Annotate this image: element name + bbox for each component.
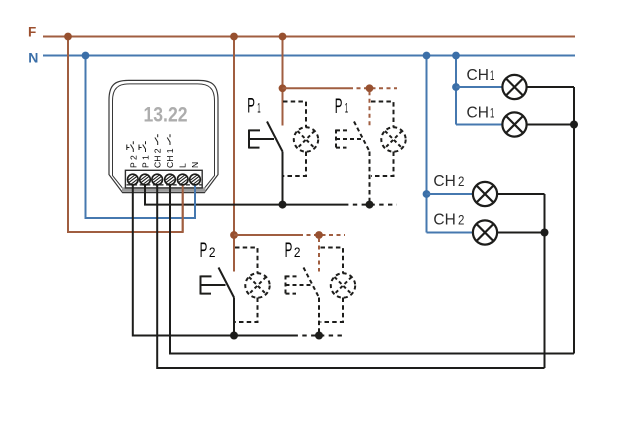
pushbutton P1 blade bbox=[267, 122, 283, 152]
svg-text:CH: CH bbox=[467, 67, 489, 84]
node F left bbox=[64, 33, 72, 41]
screw terminal 2 (P1) bbox=[140, 174, 151, 185]
wire CH1 return vertical bbox=[573, 87, 575, 354]
wire P1b top stub bbox=[369, 91, 371, 125]
wire F drop to P2 bbox=[233, 37, 235, 272]
wire N line bbox=[43, 55, 575, 57]
wire P2b blade to bus bbox=[318, 298, 320, 336]
svg-text:1: 1 bbox=[345, 101, 348, 116]
wire P1b blade to bus bbox=[369, 152, 371, 205]
node CH2 branch bbox=[423, 190, 431, 198]
lamp CH1a bbox=[502, 75, 526, 99]
wire to lamp CH2b bbox=[427, 232, 474, 234]
pushbutton P2b blade bbox=[304, 268, 320, 298]
wire lamp CH1a return bbox=[526, 86, 574, 88]
net F label bbox=[28, 25, 36, 40]
wire N drop to CH2 lamps bbox=[426, 56, 428, 233]
pushbutton P2b label bbox=[285, 239, 301, 262]
node CH2 return bbox=[541, 229, 549, 237]
lamp CH2b bbox=[473, 220, 497, 244]
node CH1 return bbox=[570, 121, 578, 129]
svg-text:P: P bbox=[285, 239, 293, 262]
lamp CH1a label bbox=[467, 67, 495, 84]
svg-text:2: 2 bbox=[294, 245, 301, 260]
wire N to N terminal (left loop) bbox=[86, 56, 196, 219]
terminal label P2 bbox=[127, 141, 139, 168]
P2 neon lamp bbox=[245, 273, 269, 297]
pushbutton P1b actuator bbox=[336, 130, 361, 149]
P1 neon lamp bbox=[294, 127, 318, 151]
wire terminal CH2 to lamp return bbox=[157, 182, 544, 368]
terminal label CH2 bbox=[153, 134, 163, 168]
svg-text:2: 2 bbox=[209, 245, 216, 260]
wire F drop to P1 bbox=[282, 37, 284, 126]
lamp CH2b label bbox=[433, 211, 464, 228]
pushbutton P1b label bbox=[335, 95, 348, 118]
wire to lamp CH1b bbox=[456, 124, 503, 126]
wire lamp CH2a return bbox=[497, 193, 545, 195]
wire P2 top branch bbox=[234, 234, 345, 236]
P2b lamp loop bbox=[321, 248, 344, 323]
svg-text:CH: CH bbox=[433, 173, 455, 190]
P1b lamp loop bbox=[371, 102, 394, 177]
svg-text:N: N bbox=[190, 162, 200, 168]
screw terminal 6 (N) bbox=[190, 174, 201, 185]
wire P2 blade to bus bbox=[233, 298, 235, 336]
svg-text:2: 2 bbox=[458, 212, 464, 227]
node P1 top bbox=[279, 84, 287, 92]
svg-text:P: P bbox=[247, 95, 255, 118]
svg-text:P 1: P 1 bbox=[141, 155, 151, 168]
wire N drop to CH1 lamps bbox=[455, 56, 457, 125]
node P1b top bbox=[366, 84, 374, 92]
node P1b bottom bbox=[366, 201, 374, 209]
svg-text:F: F bbox=[28, 25, 36, 40]
node N left bbox=[82, 52, 90, 60]
wire to lamp CH2a bbox=[427, 193, 474, 195]
screw terminal 5 (L) bbox=[177, 174, 188, 185]
wire lamp CH2b return bbox=[497, 232, 545, 234]
pushbutton P2 blade bbox=[219, 268, 235, 298]
wire terminal CH1 to lamp return bbox=[170, 182, 574, 354]
lamp CH2a bbox=[473, 182, 497, 206]
pushbutton P1 actuator bbox=[249, 130, 274, 149]
wire P2b top stub bbox=[318, 238, 320, 272]
node F at x234 bbox=[230, 33, 238, 41]
terminal label N bbox=[190, 162, 200, 168]
svg-text:CH: CH bbox=[467, 104, 489, 121]
svg-text:P: P bbox=[335, 95, 343, 118]
P2b neon lamp bbox=[331, 273, 355, 297]
wire CH2 return vertical bbox=[544, 194, 546, 368]
lamp CH2a label bbox=[433, 173, 464, 190]
pushbutton P2b actuator bbox=[286, 276, 311, 295]
pushbutton P2 actuator bbox=[201, 276, 226, 295]
terminal label L bbox=[178, 163, 188, 168]
screw terminal 4 (CH1) bbox=[165, 174, 176, 185]
svg-text:1: 1 bbox=[257, 100, 260, 115]
pushbutton P1 label bbox=[247, 95, 260, 118]
svg-text:CH: CH bbox=[433, 211, 455, 228]
lamp CH1b label bbox=[467, 104, 495, 121]
wire F to L terminal (left loop) bbox=[68, 37, 183, 233]
node P2 top bbox=[230, 231, 238, 239]
node N at x426 bbox=[423, 52, 431, 60]
P1b neon lamp bbox=[381, 127, 405, 151]
svg-text:P: P bbox=[200, 239, 208, 262]
lamp CH1b bbox=[502, 112, 526, 136]
svg-text:N: N bbox=[28, 50, 38, 66]
svg-text:L: L bbox=[178, 163, 188, 168]
wire terminal N stub bbox=[194, 182, 196, 218]
wire P1 blade to bus bbox=[282, 152, 284, 205]
node F at x283 bbox=[279, 33, 287, 41]
net N label bbox=[28, 50, 38, 66]
node N at x456 bbox=[452, 52, 460, 60]
terminal label P1 bbox=[139, 141, 151, 168]
terminal strip bbox=[122, 170, 205, 192]
svg-text:P 2: P 2 bbox=[128, 155, 138, 168]
svg-text:2: 2 bbox=[458, 174, 464, 189]
svg-text:CH 2: CH 2 bbox=[153, 148, 163, 168]
wire terminal P1 to mid bus bbox=[145, 182, 397, 205]
screw terminal 1 (P2) bbox=[128, 174, 139, 185]
svg-text:13.22: 13.22 bbox=[144, 103, 188, 127]
P1 lamp loop bbox=[283, 102, 306, 177]
wire terminal P2 to bottom bus bbox=[133, 182, 345, 336]
screw terminal 3 (CH2) bbox=[152, 174, 163, 185]
node CH1 branch bbox=[452, 83, 460, 91]
svg-text:1: 1 bbox=[490, 68, 494, 83]
wire terminal L stub bbox=[182, 182, 184, 232]
pushbutton P1b blade bbox=[354, 122, 370, 152]
svg-text:CH 1: CH 1 bbox=[165, 148, 175, 168]
module label 13.22 bbox=[144, 103, 188, 127]
pushbutton P2 label bbox=[200, 239, 216, 262]
node P1 bottom bbox=[279, 201, 287, 209]
node P2b bottom bbox=[315, 332, 323, 340]
relay module 13.22 body bbox=[109, 80, 218, 192]
wire F line bbox=[43, 36, 575, 38]
P2 lamp loop bbox=[235, 248, 258, 323]
node P2 bottom bbox=[230, 332, 238, 340]
wire lamp CH1b return bbox=[526, 124, 574, 126]
svg-text:1: 1 bbox=[490, 105, 494, 120]
terminal label CH1 bbox=[165, 134, 175, 168]
wire to lamp CH1a bbox=[456, 86, 503, 88]
wire P1 top branch bbox=[283, 87, 398, 89]
node P2b top bbox=[315, 231, 323, 239]
